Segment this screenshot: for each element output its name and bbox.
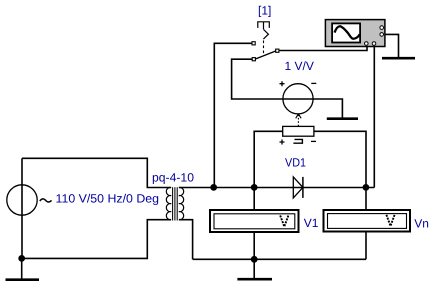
wire switch lower-left terminal to 1V/V source: [232, 59, 283, 99]
switch S1 key bracket: [258, 22, 270, 29]
switch S1 spring zigzag: [263, 29, 268, 39]
ground right of oscilloscope: [382, 57, 415, 60]
wire sense box right to bus junction: [314, 131, 366, 187]
wire bottom bus to ground stem: [253, 259, 255, 278]
junction node: bottom bus and ground: [251, 256, 258, 263]
dependent source minus sign: [311, 82, 316, 84]
switch S1 common terminal: [276, 49, 279, 52]
wire secondary top / main top bus: [179, 187, 374, 189]
voltmeter V1 inner box: [214, 214, 295, 229]
wire oscilloscope terminal 2 down to bus: [373, 44, 375, 188]
ground below bottom bus: [237, 278, 272, 281]
svg-text:pq-4-10: pq-4-10: [152, 171, 194, 185]
oscilloscope bottom terminal 1: [365, 42, 369, 46]
wire bus to switch upper-left terminal: [214, 43, 252, 187]
oscilloscope right terminal A: [380, 26, 384, 30]
junction node: bus and V1 branch: [251, 184, 258, 191]
sense box plus sign: [280, 140, 285, 145]
svg-text:1 V/V: 1 V/V: [285, 59, 314, 73]
wire bottom bus: [193, 258, 366, 260]
ground right of 1V/V source: [327, 117, 358, 120]
svg-text:110 V/50 Hz/0 Deg: 110 V/50 Hz/0 Deg: [56, 191, 160, 205]
dependent source plus sign: [280, 81, 285, 86]
wire bus to voltmeter V1 top: [253, 188, 255, 210]
wire switch common to oscilloscope terminal: [279, 44, 367, 51]
sense box bracket symbol: [293, 139, 302, 143]
wire oscilloscope right terminal to ground: [384, 34, 399, 57]
voltmeter Vn outer box: [324, 210, 411, 232]
dependent source dotted control arrow: [296, 114, 301, 126]
svg-text:[1]: [1]: [258, 4, 271, 18]
AC source tilde mark: [40, 199, 52, 202]
AC voltage source circle: [7, 185, 37, 215]
junction node: bus and Vn branch: [363, 184, 370, 191]
transformer T1 secondary coil: [179, 187, 184, 219]
sense box minus sign: [311, 140, 316, 142]
oscilloscope sine trace: [335, 26, 360, 38]
wire secondary bottom down: [179, 220, 193, 260]
switch S1 blade: [255, 51, 275, 59]
wire source top to transformer primary top: [22, 158, 171, 187]
wire source bottom to transformer primary bottom: [22, 220, 171, 259]
ground below AC source: [6, 258, 40, 279]
voltmeter Vn inner box: [328, 214, 407, 229]
wire through AC source vertical: [21, 158, 23, 258]
dependent source 1V/V circle: [283, 84, 313, 114]
switch S1 upper-left terminal: [252, 42, 255, 45]
junction node: AC source bottom: [18, 255, 25, 262]
svg-text:VD1: VD1: [285, 156, 306, 170]
wire bus to voltmeter Vn top: [365, 188, 367, 210]
junction node: bus and switch branch: [210, 184, 217, 191]
oscilloscope right terminal B: [380, 33, 384, 37]
wire 1V/V source through and right to ground: [283, 99, 343, 118]
wire sense box left to bus junction: [254, 131, 283, 187]
svg-text:V1: V1: [304, 216, 319, 230]
diode VD1 cathode bar: [302, 177, 304, 198]
transformer T1 core lines: [173, 187, 178, 220]
oscilloscope screen: [332, 23, 360, 42]
switch S1 dashed control link: [263, 41, 265, 56]
voltmeter Vn V readout: [386, 215, 394, 226]
diode VD1 triangle: [293, 177, 303, 198]
voltmeter V1 outer box: [210, 210, 299, 232]
oscilloscope bottom terminal 2: [372, 42, 376, 46]
switch S1 lower-left terminal: [252, 58, 255, 61]
wire voltmeter V1 bottom to bottom bus: [253, 233, 255, 260]
sense box body: [283, 126, 314, 136]
svg-text:Vn: Vn: [414, 217, 429, 231]
transformer T1 primary coil: [166, 187, 171, 219]
wire voltmeter Vn bottom to bottom bus: [365, 233, 367, 260]
oscilloscope body: [325, 20, 385, 47]
voltmeter V1 V readout: [280, 215, 288, 226]
